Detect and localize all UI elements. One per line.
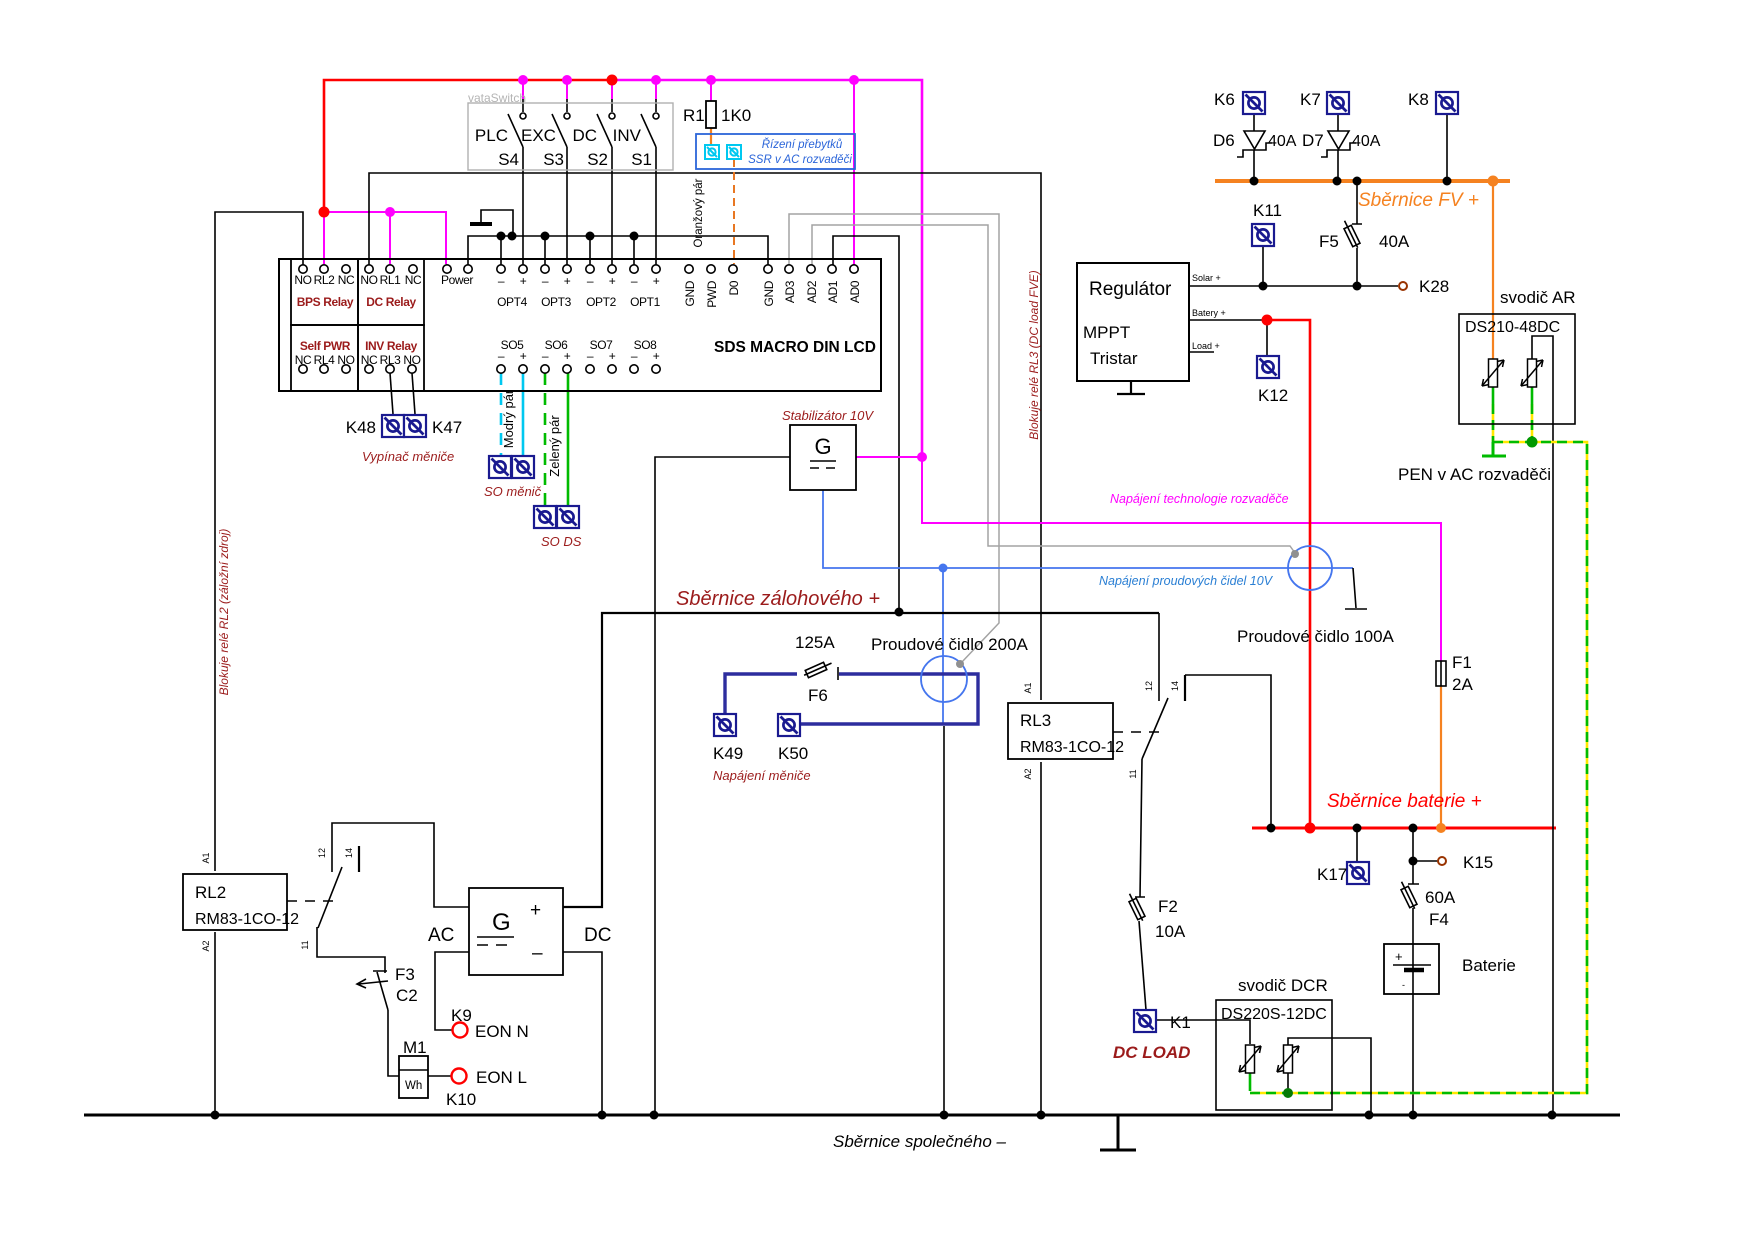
svg-text:DS220S-12DC: DS220S-12DC	[1221, 1006, 1327, 1023]
switch S2 lead and blade	[597, 99, 612, 265]
fuse F6 tick	[837, 667, 839, 680]
svg-text:NC: NC	[405, 273, 422, 287]
svg-text:GND: GND	[683, 280, 697, 306]
svg-text:–: –	[542, 349, 549, 363]
wire magenta napajeni technologie to F1	[922, 457, 1441, 660]
svg-text:DC: DC	[584, 925, 611, 946]
wire SO5+ cyan	[522, 373, 525, 455]
wire magenta stub S3	[566, 80, 568, 99]
svg-text:–: –	[631, 274, 638, 288]
wire magenta stub S2	[611, 80, 613, 99]
svg-text:RL3: RL3	[380, 353, 402, 367]
wire battery bus red	[1252, 827, 1556, 830]
relay coil RL3 box	[1008, 703, 1113, 759]
svg-text:10A: 10A	[1155, 922, 1186, 941]
wire F3 to M1 meter	[388, 1010, 399, 1076]
svg-text:–: –	[532, 943, 543, 964]
wire K15 branch	[1408, 828, 1438, 884]
svg-text:+: +	[609, 349, 616, 363]
svg-text:+: +	[520, 274, 527, 288]
relay coil RL2 box	[183, 874, 287, 930]
wire backup bus Sbernice zalohoveho	[563, 613, 1159, 907]
svg-text:K50: K50	[778, 744, 808, 763]
switch S1 lead and blade	[641, 99, 656, 265]
svg-text:A1: A1	[201, 852, 211, 863]
svg-text:A1: A1	[1023, 682, 1033, 693]
SDS top terminal pins	[299, 265, 858, 273]
svg-text:F2: F2	[1158, 897, 1178, 916]
svg-text:NC: NC	[295, 353, 312, 367]
svg-text:+: +	[1395, 949, 1403, 964]
svg-text:Proudové čidlo 100A: Proudové čidlo 100A	[1237, 627, 1395, 646]
wire orange dashed D0 pair	[733, 159, 735, 264]
wire green AR varistor earth leads	[1493, 387, 1532, 404]
current sensor 100A circle	[1288, 546, 1332, 590]
SSR control box	[696, 134, 855, 169]
svg-text:D7: D7	[1302, 131, 1324, 150]
svg-text:DS210-48DC: DS210-48DC	[1465, 319, 1560, 336]
stabilizer 10V box	[790, 425, 856, 490]
svg-text:SO DS: SO DS	[541, 534, 582, 549]
svg-text:–: –	[587, 274, 594, 288]
regulator MPPT Tristar box	[1077, 263, 1189, 381]
wire RL3 14 to battery bus	[1185, 675, 1271, 826]
wire regulator Batery+ lead	[1189, 320, 1267, 355]
svg-text:INV Relay: INV Relay	[365, 339, 417, 353]
svg-text:NO: NO	[360, 273, 377, 287]
svg-text:Sběrnice společného –: Sběrnice společného –	[833, 1132, 1007, 1151]
svg-text:S3: S3	[543, 150, 564, 169]
svg-text:14: 14	[1170, 681, 1180, 691]
svg-text:12: 12	[317, 848, 327, 858]
fuse F4	[1398, 880, 1418, 910]
svg-text:S2: S2	[587, 150, 608, 169]
bus Sbernice FV+ orange	[1215, 179, 1510, 183]
svg-text:Napájení proudových čidel 10V: Napájení proudových čidel 10V	[1099, 574, 1274, 588]
wire DCR varistor2 bottom lead	[1287, 1073, 1289, 1091]
wire navy F6 through 200A sensor to K50	[801, 674, 978, 724]
svg-text:INV: INV	[613, 126, 642, 145]
wire orange F1 to battery bus	[1440, 686, 1442, 826]
ground green PEN	[1482, 442, 1506, 456]
svg-text:EON N: EON N	[475, 1022, 529, 1041]
svg-text:+: +	[609, 274, 616, 288]
svg-text:+: +	[520, 349, 527, 363]
junction dots OPT minus bus	[497, 232, 639, 241]
junction dot orange battery bus	[1436, 823, 1446, 833]
svg-text:60A: 60A	[1425, 888, 1456, 907]
svg-text:1K0: 1K0	[721, 106, 751, 125]
svg-text:NO: NO	[294, 273, 311, 287]
svg-text:PWD: PWD	[705, 280, 719, 308]
svg-text:12: 12	[1144, 681, 1154, 691]
wire SO6+ green	[567, 373, 570, 506]
svg-text:K49: K49	[713, 744, 743, 763]
svg-text:D0: D0	[727, 280, 741, 295]
DC Relay sub-box	[358, 259, 424, 325]
wire orange FV to svodic AR	[1492, 183, 1494, 359]
wire RL3 switch 12 lead	[1158, 613, 1160, 701]
ACDC G symbol	[477, 909, 514, 945]
svg-text:K9: K9	[451, 1006, 472, 1025]
svg-text:+: +	[653, 274, 660, 288]
ground symbol on common bus	[1100, 1115, 1136, 1150]
svg-text:Vypínač měniče: Vypínač měniče	[362, 449, 454, 464]
svg-text:K10: K10	[446, 1090, 476, 1109]
terminal K8	[1436, 92, 1458, 114]
wire K47 from RL3 relay contact	[412, 373, 415, 414]
wire magenta net to RL2/RL1/Power terminals	[324, 212, 446, 264]
svg-text:DC: DC	[572, 126, 597, 145]
svg-text:RM83-1CO-12: RM83-1CO-12	[195, 911, 299, 928]
terminal K50	[778, 714, 800, 736]
meter M1 box	[399, 1056, 428, 1098]
wire ACDC AC neutral to K9	[435, 952, 469, 1030]
svg-text:svodič DCR: svodič DCR	[1238, 976, 1328, 995]
svg-text:Blokuje relé RL2 (záložní zdro: Blokuje relé RL2 (záložní zdroj)	[217, 529, 231, 696]
svg-text:F4: F4	[1429, 910, 1449, 929]
diode D6	[1237, 131, 1272, 157]
wire OPT minus common bus	[468, 236, 768, 265]
wire stabilizer blue 10V supply	[823, 490, 1353, 568]
wire RL2 switch arm	[318, 867, 342, 928]
wire AD1 to backup bus	[833, 236, 899, 612]
wire stabilizer magenta output	[856, 456, 922, 458]
vataSwitch box	[468, 103, 673, 170]
terminal K49	[714, 714, 736, 736]
junction dot magenta RL1 node	[385, 207, 395, 217]
svg-text:2A: 2A	[1452, 675, 1473, 694]
varistor AR-2	[1521, 359, 1543, 387]
svg-text:SDS MACRO DIN LCD: SDS MACRO DIN LCD	[714, 339, 876, 356]
svg-text:Self PWR: Self PWR	[300, 339, 351, 353]
terminal SSR-2	[727, 145, 741, 159]
label Rizeni prebytku SSR	[748, 138, 852, 166]
wire DCR K1 feed	[1157, 1020, 1250, 1044]
svg-text:OPT2: OPT2	[586, 295, 616, 309]
junction dots FV bus	[1250, 177, 1452, 186]
junction dot gray 200A	[956, 660, 964, 668]
wire magenta stub S4	[522, 80, 524, 99]
svg-text:A2: A2	[1023, 768, 1033, 779]
svg-text:PLC: PLC	[475, 126, 508, 145]
svg-text:Regulátor: Regulátor	[1089, 279, 1172, 300]
svg-text:RL2: RL2	[195, 883, 226, 902]
junction dot orange FV svodic	[1488, 176, 1499, 187]
svg-text:OPT3: OPT3	[541, 295, 571, 309]
terminal SSR-1	[705, 145, 719, 159]
wire magenta stub S1	[655, 80, 657, 99]
svg-text:Sběrnice zálohového +: Sběrnice zálohového +	[676, 588, 880, 610]
svg-text:OPT4: OPT4	[497, 295, 527, 309]
svg-text:DC Relay: DC Relay	[366, 295, 416, 309]
svg-text:Stabilizátor 10V: Stabilizátor 10V	[782, 408, 874, 423]
svg-text:M1: M1	[403, 1038, 427, 1057]
wire D6 to FV bus	[1253, 150, 1255, 179]
terminal K48	[382, 415, 404, 437]
svg-text:F5: F5	[1319, 232, 1339, 251]
terminal K47	[404, 415, 426, 437]
wire F5 leads	[1352, 181, 1362, 285]
svg-text:RL1: RL1	[380, 273, 402, 287]
fuse F1	[1436, 660, 1446, 686]
svg-text:–: –	[498, 349, 505, 363]
svg-text:Load +: Load +	[1192, 341, 1220, 351]
svodic AR box	[1459, 314, 1575, 424]
junction dot green AR earth	[1527, 437, 1538, 448]
fuse F5	[1341, 219, 1361, 249]
svodic DCR box	[1216, 1000, 1332, 1110]
wire 200A sensor loop to common bus	[943, 726, 945, 1113]
svg-text:-: -	[1402, 980, 1405, 990]
fuse F6	[802, 659, 833, 679]
junction dot red RL2 node	[319, 207, 330, 218]
svg-text:PEN v AC rozvaděči: PEN v AC rozvaděči	[1398, 465, 1551, 484]
svg-text:D6: D6	[1213, 131, 1235, 150]
junction dots top bus	[518, 75, 859, 85]
svg-text:Power: Power	[441, 273, 473, 287]
svg-text:+: +	[653, 349, 660, 363]
wire BPS NO to RL2 coil A1/A2	[215, 212, 303, 1113]
wire orange R1 to SSR terminal	[710, 128, 712, 145]
BPS Relay sub-box	[291, 259, 358, 325]
svg-text:40A: 40A	[1268, 133, 1297, 150]
svg-text:BPS Relay: BPS Relay	[297, 295, 354, 309]
wire RL2 switch 14 contact bar	[358, 846, 360, 872]
svg-text:G: G	[492, 909, 511, 936]
switch S4 lead and blade	[508, 99, 523, 265]
terminal K11	[1252, 224, 1274, 246]
switch S3 lead and blade	[552, 99, 567, 265]
junction dot red battery bus	[1305, 823, 1316, 834]
rotated pin labels GND PWD D0 GND AD3 AD2 AD1 AD0	[683, 280, 862, 308]
wire K11 lead	[1262, 247, 1264, 285]
svg-text:Oranžový pár: Oranžový pár	[693, 178, 705, 247]
svg-text:SSR v AC rozvaděči: SSR v AC rozvaděči	[748, 154, 852, 166]
svg-text:EON L: EON L	[476, 1068, 527, 1087]
terminal K1	[1134, 1010, 1156, 1032]
svg-text:–: –	[631, 349, 638, 363]
svg-text:MPPT: MPPT	[1083, 323, 1130, 342]
wire ACDC minus to common bus	[563, 952, 602, 1113]
SO minus plus labels	[498, 349, 660, 363]
svg-text:Wh: Wh	[405, 1080, 422, 1092]
relay RL3 actuator dashed link	[1113, 731, 1165, 733]
varistor DCR-2	[1277, 1045, 1299, 1073]
terminal SO DS pair	[534, 506, 556, 528]
wire regulator Batery+ red feed	[1267, 320, 1310, 826]
fuse F2	[1126, 892, 1146, 922]
svg-text:Sběrnice FV +: Sběrnice FV +	[1358, 190, 1479, 211]
svg-text:Napájení měniče: Napájení měniče	[713, 768, 811, 783]
wire K17 lead	[1356, 828, 1358, 861]
svg-text:OPT1: OPT1	[630, 295, 660, 309]
wire RL3 switch arm	[1142, 698, 1168, 759]
wire SO5- cyan dashed	[500, 373, 503, 455]
svg-text:RL4: RL4	[314, 353, 336, 367]
svg-text:RM83-1CO-12: RM83-1CO-12	[1020, 739, 1124, 756]
svg-text:RL3: RL3	[1020, 711, 1051, 730]
varistor AR-1	[1482, 359, 1504, 387]
wire RL3 switch 11 lead to F2	[1135, 759, 1145, 897]
terminal K17	[1347, 862, 1369, 884]
junction dot magenta stabilizer	[917, 452, 927, 462]
wire regulator Load+ stub	[1189, 351, 1214, 353]
svg-text:Tristar: Tristar	[1090, 349, 1138, 368]
wire blue supply ground lead	[1345, 568, 1367, 609]
terminal K10 EON L	[452, 1069, 467, 1084]
battery symbol	[1384, 944, 1439, 994]
svg-text:RL2: RL2	[314, 273, 336, 287]
terminal K7	[1327, 92, 1349, 114]
svg-text:F3: F3	[395, 965, 415, 984]
wire AR varistor2 to common bus	[1532, 336, 1553, 1113]
wire DCR varistor1 green lead	[1249, 1073, 1252, 1091]
fuse F3 blade and arrow	[357, 972, 388, 1010]
svg-text:–: –	[587, 349, 594, 363]
svg-text:+: +	[564, 274, 571, 288]
junction dots common bus	[211, 1111, 1557, 1120]
current sensor 200A circle	[921, 656, 967, 702]
regulator ground	[1117, 381, 1145, 394]
svg-text:K17: K17	[1317, 865, 1347, 884]
wire RL2 switch top path to ACDC	[332, 823, 469, 907]
junction dots battery bus	[1267, 824, 1418, 866]
svg-text:F6: F6	[808, 686, 828, 705]
terminal SO menic pair	[489, 456, 511, 478]
wire RL3 switch 14 contact bar	[1184, 675, 1186, 701]
svg-text:S4: S4	[498, 150, 519, 169]
junction dot red batery+	[1262, 315, 1273, 326]
svg-text:K28: K28	[1419, 277, 1449, 296]
junction dot gray 100A	[1291, 550, 1299, 558]
wire regulator Solar+ to K28	[1189, 285, 1398, 287]
resistor R1	[706, 101, 716, 128]
wire top supply bus red segment	[324, 80, 612, 212]
earth green yellow dashed AR to DCR	[1250, 442, 1587, 1093]
svg-text:Sběrnice baterie +: Sběrnice baterie +	[1327, 791, 1482, 812]
svg-text:EXC: EXC	[521, 126, 556, 145]
svg-text:NC: NC	[361, 353, 378, 367]
svg-text:Baterie: Baterie	[1462, 956, 1516, 975]
junction dots solar wire	[1259, 282, 1362, 291]
wire DCR varistor2 top to common bus	[1288, 1038, 1371, 1113]
terminal K15	[1438, 857, 1446, 865]
svg-text:Modrý pár: Modrý pár	[501, 389, 516, 448]
svg-text:K11: K11	[1253, 201, 1282, 220]
INV Relay sub-box	[358, 325, 424, 391]
wire RL2 switch 11 lead to F3	[317, 927, 387, 973]
svg-text:125A: 125A	[795, 633, 835, 652]
svg-text:K6: K6	[1214, 90, 1235, 109]
svg-text:Solar +: Solar +	[1192, 273, 1221, 283]
svg-text:AD0: AD0	[848, 280, 862, 303]
svg-text:GND: GND	[762, 280, 776, 306]
svg-text:K12: K12	[1258, 386, 1288, 405]
svg-text:+: +	[564, 349, 571, 363]
SDS bottom terminal pins	[299, 365, 660, 373]
svg-text:Zelený pár: Zelený pár	[547, 415, 562, 477]
wire F4 to battery to common bus	[1412, 908, 1414, 1113]
svg-text:K15: K15	[1463, 853, 1493, 872]
svg-text:11: 11	[1128, 769, 1138, 778]
terminal K12	[1257, 356, 1279, 378]
svg-text:K1: K1	[1170, 1013, 1191, 1032]
wire K7 to D7	[1337, 114, 1339, 131]
svg-text:Batery +: Batery +	[1192, 308, 1226, 318]
svg-text:AD3: AD3	[783, 280, 797, 303]
svg-text:S1: S1	[631, 150, 652, 169]
svg-text:K8: K8	[1408, 90, 1429, 109]
svg-text:vataSwitch: vataSwitch	[468, 91, 526, 105]
wire top supply bus magenta segment to stabilizer	[612, 80, 922, 457]
wire AD2 gray to 100A sensor	[812, 225, 1295, 553]
svg-text:NO: NO	[337, 353, 354, 367]
wire stabilizer to common bus	[655, 457, 790, 1113]
svg-text:Blokuje relé RL3 (DC load FVE): Blokuje relé RL3 (DC load FVE)	[1027, 270, 1041, 439]
terminal K6	[1243, 92, 1265, 114]
svg-text:SO měnič: SO měnič	[484, 484, 542, 499]
wire magenta stub R1	[710, 80, 712, 101]
svg-text:NO: NO	[403, 353, 420, 367]
relay RL2 actuator dashed link	[287, 900, 341, 902]
svg-text:K47: K47	[432, 418, 462, 437]
wire blue branch to 200A sensor	[942, 568, 944, 723]
wire M1 to EON L	[428, 1075, 451, 1077]
svg-text:AD2: AD2	[805, 280, 819, 303]
bus Sbernice spolecneho minus	[84, 1114, 1620, 1117]
wire DC-relay NO to RL3 coil A1/A2	[369, 173, 1041, 1113]
wire K48 from RL3 relay contact	[390, 373, 393, 414]
wire K6 to D6	[1253, 114, 1255, 131]
SDS MACRO DIN LCD box	[279, 259, 881, 391]
svg-text:A2: A2	[201, 940, 211, 951]
svg-text:11: 11	[300, 940, 310, 949]
Self PWR sub-box	[291, 325, 358, 391]
SDS terminal labels row1	[294, 273, 659, 288]
wire K8 to FV bus	[1446, 114, 1448, 179]
svg-text:R1: R1	[683, 106, 705, 125]
svg-text:40A: 40A	[1379, 232, 1410, 251]
varistor DCR-1	[1239, 1045, 1261, 1073]
ground-button symbol near Power	[481, 210, 513, 236]
svg-text:Řízení přebytků: Řízení přebytků	[762, 138, 843, 151]
junction dot blue sensor supply	[939, 564, 948, 573]
svg-text:svodič AR: svodič AR	[1500, 288, 1576, 307]
wire AD3 gray to 200A sensor	[789, 214, 999, 663]
svg-text:Napájení technologie rozvaděče: Napájení technologie rozvaděče	[1110, 492, 1289, 506]
svg-text:DC LOAD: DC LOAD	[1113, 1043, 1190, 1062]
svg-text:K7: K7	[1300, 90, 1321, 109]
svg-text:G: G	[814, 434, 831, 459]
svg-text:+: +	[530, 900, 541, 921]
junction dot backup bus AD1	[895, 608, 904, 617]
wire magenta AD0	[853, 80, 855, 265]
wire navy K49 to F6	[725, 674, 797, 714]
SDS terminal labels row2	[295, 353, 421, 367]
terminal K9 EON N	[453, 1023, 468, 1038]
svg-text:F1: F1	[1452, 653, 1472, 672]
svg-text:–: –	[542, 274, 549, 288]
svg-text:14: 14	[344, 848, 354, 858]
svg-text:40A: 40A	[1352, 133, 1381, 150]
svg-text:–: –	[498, 274, 505, 288]
wire SO6- green dashed	[544, 373, 547, 505]
stabilizer G symbol	[810, 434, 836, 468]
svg-text:C2: C2	[396, 986, 418, 1005]
svg-text:NC: NC	[338, 273, 355, 287]
wire D7 to FV bus	[1337, 150, 1339, 179]
